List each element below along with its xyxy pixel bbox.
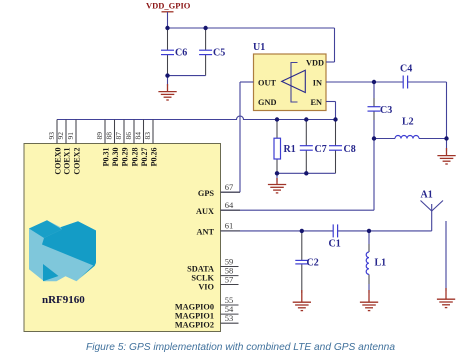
svg-text:P0.30: P0.30: [111, 148, 120, 167]
svg-text:P0.26: P0.26: [149, 148, 158, 167]
svg-text:88: 88: [105, 132, 114, 140]
svg-text:P0.28: P0.28: [130, 148, 139, 167]
svg-text:84: 84: [134, 132, 143, 140]
svg-text:COEX2: COEX2: [72, 148, 81, 175]
svg-text:83: 83: [143, 132, 152, 140]
svg-text:87: 87: [114, 132, 123, 140]
svg-text:93: 93: [47, 132, 56, 140]
svg-text:91: 91: [66, 132, 75, 140]
svg-text:P0.27: P0.27: [140, 148, 149, 167]
svg-text:89: 89: [95, 132, 104, 140]
svg-text:P0.29: P0.29: [120, 148, 129, 167]
svg-text:COEX1: COEX1: [62, 148, 71, 175]
svg-text:COEX0: COEX0: [53, 148, 62, 175]
svg-text:92: 92: [56, 132, 65, 140]
svg-text:86: 86: [124, 132, 133, 140]
svg-text:P0.31: P0.31: [101, 148, 110, 167]
